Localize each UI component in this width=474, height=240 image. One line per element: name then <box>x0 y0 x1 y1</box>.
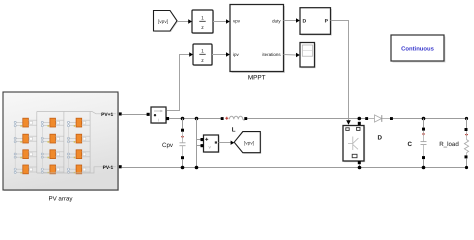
inductor L polarity + <box>225 117 228 120</box>
node: R_load bottom corner <box>465 166 468 169</box>
wire: top rail diode to R_load <box>393 118 467 120</box>
unit delay U2 (1/z) <box>194 45 213 66</box>
svg-text:vpv: vpv <box>233 18 241 23</box>
svg-text:Continuous: Continuous <box>401 46 434 53</box>
node: voltage measure bottom junction <box>195 166 199 170</box>
wire: PV array bottom bus to PV-1 port <box>37 167 116 173</box>
diode D left terminal <box>365 117 368 120</box>
wire: From tag to unit delay 1 <box>177 21 189 23</box>
PV cell module col1 row4 <box>14 165 37 174</box>
node: Cpv top junction <box>181 117 185 121</box>
PWM generator block (D to P) <box>301 9 332 36</box>
capacitor Cpv branch <box>182 119 184 129</box>
arrowhead into display <box>296 53 300 57</box>
wire: column 1 bus <box>36 112 38 174</box>
wire: voltage measurement branch <box>196 119 198 168</box>
PV cell module col2 row2 <box>41 134 64 143</box>
svg-text:D: D <box>377 135 382 142</box>
arrowhead into Goto vpv <box>231 141 235 145</box>
wire: ipv signal up to unit delay <box>167 55 190 111</box>
wire: IGBT bottom stub <box>359 164 361 168</box>
svg-text:[vpv]: [vpv] <box>244 141 254 147</box>
svg-text:PV array: PV array <box>48 196 73 203</box>
node: capacitor C bottom junction <box>422 166 426 170</box>
svg-text:L: L <box>232 127 236 134</box>
wire: PV array top bus to PV+1 port <box>37 112 116 114</box>
port PV+1 terminal <box>119 112 122 115</box>
diode D right terminal <box>390 117 393 120</box>
inductor L left terminal <box>221 117 224 120</box>
MPPT subsystem block U3 <box>232 6 286 73</box>
current measurement block Ipv <box>152 108 167 124</box>
svg-text:C: C <box>407 141 412 148</box>
voltage measurement - port terminal <box>201 144 204 147</box>
svg-text:MPPT: MPPT <box>248 75 266 82</box>
diode D symbol <box>368 118 374 120</box>
PV cell module col2 row4 <box>41 165 64 174</box>
svg-text:duty: duty <box>272 18 281 23</box>
wire: column 2 bus <box>63 112 65 174</box>
wire: bottom rail PV-1 to R_load <box>122 167 467 169</box>
node: Cpv bottom junction <box>181 166 185 170</box>
current measurement right port terminal <box>166 117 169 120</box>
PV cell module col1 row2 <box>14 134 37 143</box>
inductor L right terminal <box>244 117 247 120</box>
voltage measurement + port terminal <box>201 138 204 141</box>
arrowhead into MPPT ipv <box>226 52 230 56</box>
svg-text:PV+1: PV+1 <box>101 112 113 118</box>
wire: column 2 left chain <box>41 127 43 169</box>
wire: column 3 left chain <box>68 127 70 169</box>
Goto tag [vpv] <box>235 133 261 154</box>
powergui Continuous block <box>393 37 446 63</box>
arrowhead into MPPT vpv <box>226 19 230 23</box>
arrowhead into unit delay 2 <box>189 52 193 56</box>
svg-text:iterations: iterations <box>262 52 281 57</box>
PV cell module col1 row1 <box>14 118 37 127</box>
PV cell module col3 row4 <box>68 165 91 174</box>
svg-text:ipv: ipv <box>233 52 240 57</box>
unit delay U1 (1/z) <box>193 11 214 34</box>
arrowhead into unit delay 1 <box>188 19 192 23</box>
wire: PV+1 to current measurement <box>122 114 147 116</box>
wire: unit delay 2 to MPPT ipv <box>212 54 226 56</box>
svg-text:1: 1 <box>201 16 204 22</box>
PV cell module col2 row1 <box>41 118 64 127</box>
wire: voltage measurement to Goto vpv <box>219 142 232 144</box>
wire: iterations to display <box>284 54 297 57</box>
svg-text:R_load: R_load <box>439 141 459 148</box>
IGBT bottom terminal <box>358 161 361 164</box>
IGBT top terminal <box>358 122 361 125</box>
resistor R_load branch <box>466 119 468 129</box>
svg-text:D: D <box>303 19 307 25</box>
From tag [vpv] <box>155 12 179 33</box>
inductor L coil <box>229 116 244 120</box>
PV cell module col3 row1 <box>68 118 91 127</box>
arrowhead down into IGBT gate <box>346 120 351 125</box>
svg-text:[vpv]: [vpv] <box>158 19 168 25</box>
node: voltage measure top junction <box>195 117 199 121</box>
PV cell module col1 row3 <box>14 150 37 159</box>
wire: top rail from current measurement to inductor <box>169 118 221 120</box>
arrowhead into PWM generator <box>296 18 300 22</box>
node: IGBT bottom junction <box>358 166 362 170</box>
svg-text:1: 1 <box>201 49 204 55</box>
IGBT block <box>344 127 365 163</box>
port PV-1 terminal <box>119 165 122 168</box>
wire: P output to IGBT gate <box>331 21 349 121</box>
voltage measurement block Vpv <box>205 136 220 153</box>
PV cell module col3 row3 <box>68 150 91 159</box>
node: IGBT top junction <box>358 117 362 121</box>
svg-text:i: i <box>158 118 159 123</box>
current measurement left port terminal <box>147 113 150 116</box>
wire: unit delay 1 to MPPT vpv <box>213 21 226 23</box>
svg-text:Cpv: Cpv <box>162 142 174 149</box>
svg-text:PV-1: PV-1 <box>103 165 114 171</box>
wire: top rail inductor to diode <box>247 118 365 120</box>
display block (iterations) <box>301 44 316 68</box>
PV cell module col2 row3 <box>41 150 64 159</box>
wire: column 1 left chain <box>14 127 16 169</box>
PV cell module col3 row2 <box>68 134 91 143</box>
node: capacitor C top junction <box>422 117 426 121</box>
wire: column 3 bus <box>89 112 91 174</box>
wire: duty to PWM generator <box>284 20 297 22</box>
node: R_load top corner <box>465 117 468 120</box>
capacitor C branch <box>423 119 425 128</box>
